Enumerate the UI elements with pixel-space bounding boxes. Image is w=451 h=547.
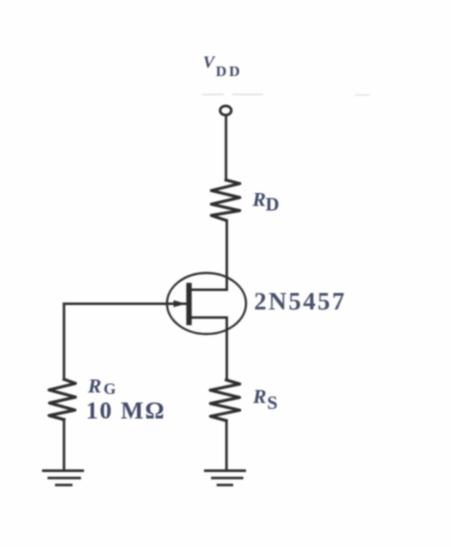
- resistor RD: [211, 180, 240, 220]
- wire gate from RG corner to transistor: [64, 302, 187, 305]
- resistor RG: [49, 379, 76, 419]
- transistor Q1 gate arrowhead: [174, 300, 187, 307]
- wire VDD terminal to RD top: [225, 115, 228, 180]
- svg-text:R: R: [87, 375, 101, 397]
- ground right: [204, 471, 246, 485]
- transistor Q1 2N5457 body circle: [167, 273, 246, 334]
- svg-text:DD: DD: [216, 64, 242, 80]
- svg-text:2N5457: 2N5457: [254, 289, 347, 316]
- ground left: [42, 471, 84, 485]
- wire source lead and down to RS: [192, 318, 227, 381]
- wire RG vertical: [63, 304, 66, 380]
- svg-text:10 MΩ: 10 MΩ: [86, 398, 166, 424]
- svg-text:S: S: [267, 393, 278, 414]
- resistor RS: [210, 380, 240, 421]
- svg-text:D: D: [266, 195, 280, 216]
- svg-text:R: R: [252, 386, 266, 408]
- svg-text:V: V: [203, 53, 216, 72]
- svg-text:R: R: [252, 189, 266, 211]
- node VDD terminal: [220, 106, 231, 115]
- wire RD bottom to drain: [192, 220, 227, 289]
- wire RS bottom to right ground: [225, 421, 228, 470]
- transistor Q1 gate bar: [186, 283, 191, 325]
- wire RG bottom to left ground: [63, 420, 66, 470]
- svg-text:G: G: [104, 381, 117, 398]
- scan artifact dashes: [202, 94, 370, 96]
